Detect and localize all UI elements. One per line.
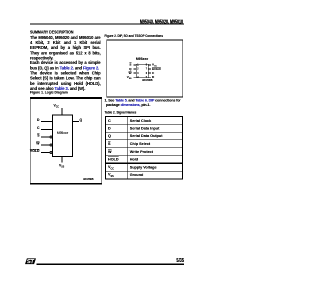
paragraph 1 — [30, 35, 101, 61]
Table 2 heading — [105, 110, 137, 115]
bubble S — [50, 136, 53, 139]
wire output Q — [73, 121, 79, 122]
block M95xxx — [52, 115, 73, 158]
pin stub R4 — [149, 76, 152, 79]
header part numbers — [119, 19, 184, 25]
label D — [30, 119, 40, 123]
pin stub R1 — [149, 64, 152, 67]
figure 1 box — [30, 97, 102, 185]
logic diagram: Vcc label — [54, 104, 59, 108]
label pin D — [152, 75, 154, 79]
wire input D — [41, 121, 52, 122]
pin stub L3 — [134, 72, 137, 75]
label pin Vss — [122, 75, 132, 79]
label pin HOLD — [152, 67, 161, 71]
pin1 dot — [137, 65, 138, 66]
header rule — [30, 23, 184, 26]
note under figure 2 line 1 — [105, 98, 181, 103]
label W — [30, 142, 40, 146]
pin numbers right — [146, 64, 147, 67]
pin stub L1 — [134, 64, 137, 67]
wire input W — [41, 144, 50, 145]
label pin W — [122, 71, 132, 75]
label pin Q — [122, 67, 132, 71]
pin stub L2 — [134, 68, 137, 71]
package label M95xxx — [132, 57, 152, 61]
label C — [30, 126, 40, 130]
bubble HOLD — [50, 151, 53, 154]
label pin S — [122, 63, 132, 67]
figure id AI01789B — [83, 179, 93, 182]
note under figure 2 line 2 — [106, 103, 150, 108]
page number — [157, 258, 184, 264]
label pin Vcc — [152, 63, 157, 67]
paragraph 3 — [30, 71, 101, 92]
Figure 2 heading — [105, 33, 163, 38]
pin stub R3 — [149, 72, 152, 75]
label HOLD — [28, 150, 40, 154]
figure 2 box — [107, 40, 184, 98]
label Q — [80, 119, 83, 123]
label Vss — [59, 164, 64, 168]
Figure 1 heading — [30, 90, 68, 95]
section heading SUMMARY DESCRIPTION — [30, 29, 74, 34]
wire Vcc stub — [62, 108, 63, 115]
signal names table — [105, 116, 183, 179]
package body — [136, 64, 148, 78]
wire Vss stub — [62, 157, 63, 163]
bubble W — [50, 143, 53, 146]
wire input S — [41, 137, 50, 138]
wire input HOLD — [41, 152, 50, 153]
label pin C — [152, 71, 154, 75]
figure 2 id — [142, 80, 152, 83]
wire input C — [41, 129, 52, 130]
footer rule — [37, 263, 185, 265]
pin numbers left — [137, 64, 138, 67]
pin stub R2 — [149, 68, 152, 71]
label S — [30, 134, 40, 138]
footer ST logo — [25, 258, 36, 265]
pin stub L4 — [134, 76, 137, 79]
paragraph 2 — [30, 61, 101, 71]
